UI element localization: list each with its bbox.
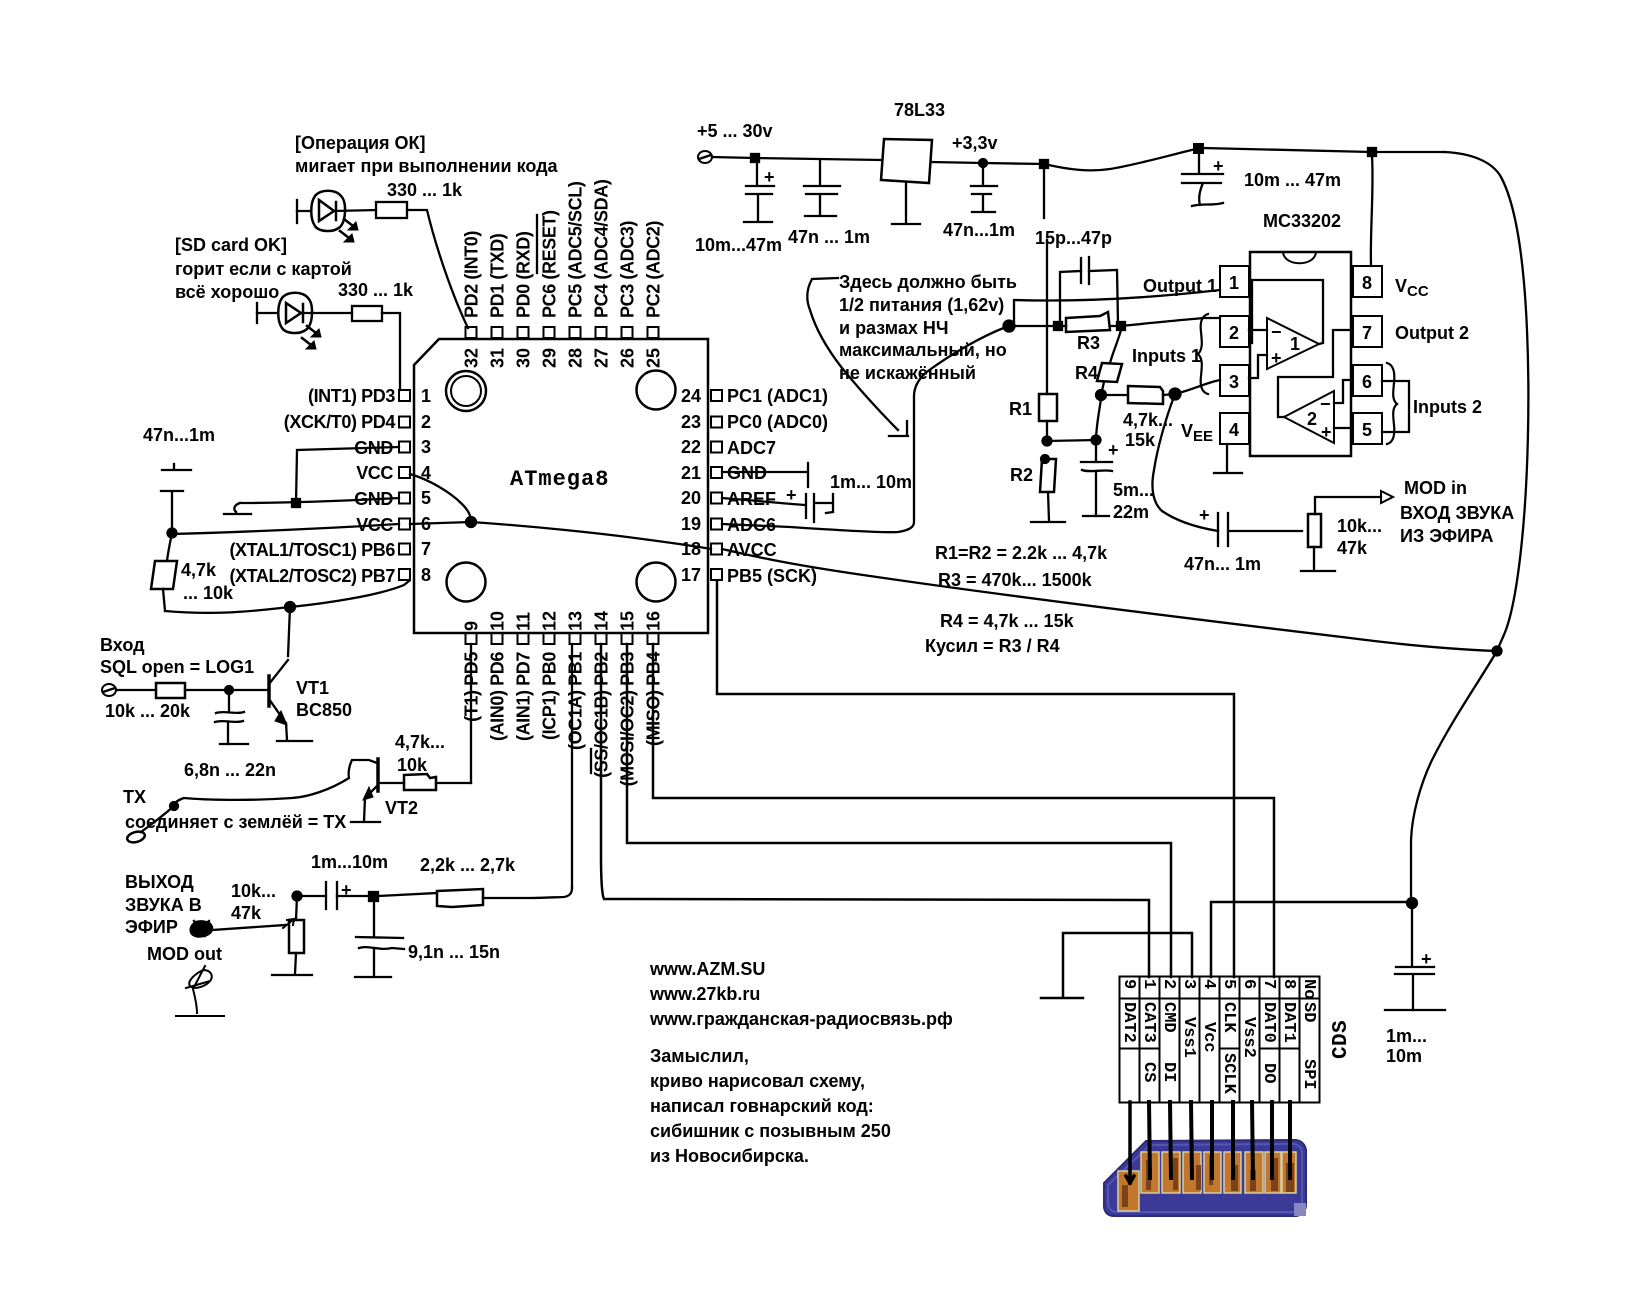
svg-text:15p...47p: 15p...47p	[1035, 228, 1112, 248]
wire Output1 feedback	[1009, 290, 1220, 326]
node base junction	[225, 686, 233, 694]
label [Операция ОК]	[295, 133, 559, 200]
svg-text:+: +	[1108, 440, 1119, 460]
SD card pad DAT2	[1118, 1171, 1139, 1211]
svg-text:19: 19	[681, 514, 701, 534]
wire 15p cap left leg	[1060, 271, 1081, 325]
ground SD Vss1	[1041, 997, 1083, 1000]
resistor 4,7k...15k (to pin3)	[1128, 386, 1163, 404]
U2 pin6 box	[1353, 365, 1382, 396]
svg-text:9: 9	[462, 621, 482, 631]
VT2 emitter	[368, 785, 378, 795]
wire to pin32	[407, 210, 468, 328]
ATmega8 left pin numbers	[421, 386, 431, 585]
U2 pin6 internal wire	[1334, 380, 1351, 403]
svg-text:8: 8	[421, 565, 431, 585]
wire +3.3v down to R1 (upper part)	[1043, 164, 1045, 218]
node R3 left junction	[1054, 322, 1062, 330]
labels MOD in	[1337, 478, 1514, 558]
op-amp 1 triangle	[1267, 318, 1319, 369]
wire resistor to pin13	[483, 888, 572, 898]
svg-text:2: 2	[421, 412, 431, 432]
svg-text:+: +	[1199, 505, 1210, 525]
svg-text:1m...: 1m...	[1386, 1026, 1427, 1046]
svg-text:7: 7	[1259, 979, 1278, 989]
VT2 collector wire to TX	[174, 760, 377, 806]
wire	[185, 689, 269, 691]
svg-text:8: 8	[1279, 979, 1298, 989]
op IC U1 ATmega8 body	[414, 339, 708, 633]
node VCC internal junction	[466, 517, 476, 527]
SD card pad Vcc	[1204, 1152, 1221, 1193]
wire SS pin14 to SD CS	[601, 644, 1149, 977]
svg-text:SCLK: SCLK	[1219, 1053, 1238, 1095]
SD card pad CMD	[1162, 1152, 1180, 1193]
node R1-R2 mid	[1043, 437, 1052, 446]
U2 pin1 box	[1220, 266, 1249, 297]
resistor 330...1k (R-LED2)	[352, 306, 382, 321]
svg-text:[Операция ОК]: [Операция ОК]	[295, 133, 426, 153]
svg-text:MC33202: MC33202	[1263, 211, 1341, 231]
LED VD2 light arrows	[307, 326, 316, 333]
U2 pin2 internal wire	[1249, 329, 1267, 331]
svg-text:47k: 47k	[1337, 538, 1368, 558]
wire mid vertical through cap	[1096, 399, 1101, 462]
wire CLK to pad	[1231, 1102, 1235, 1178]
svg-text:PC2 (ADC2): PC2 (ADC2)	[644, 221, 664, 318]
node +3.3v junction	[979, 159, 987, 167]
ATmega8 right pin squares 24-17	[711, 390, 722, 580]
note text	[650, 1046, 891, 1166]
svg-text:Vcc: Vcc	[1199, 1022, 1218, 1053]
wire	[334, 210, 376, 211]
svg-text:7: 7	[1362, 323, 1372, 343]
capacitor 1m...10m coupling	[326, 882, 337, 909]
svg-text:+: +	[764, 167, 775, 187]
svg-text:6: 6	[1362, 372, 1372, 392]
U2 internal feedback rect opamp1	[1252, 280, 1323, 344]
svg-text:17: 17	[681, 565, 701, 585]
svg-text:www.AZM.SU: www.AZM.SU	[649, 959, 765, 979]
svg-text:8: 8	[1362, 273, 1372, 293]
SD card pad DAT1	[1282, 1152, 1296, 1193]
svg-text:10m...47m: 10m...47m	[695, 235, 782, 255]
resistor R3	[1066, 312, 1110, 332]
node pot top junction	[293, 892, 302, 901]
svg-text:18: 18	[681, 539, 701, 559]
svg-text:Inputs 2: Inputs 2	[1413, 397, 1482, 417]
capacitor 10m...47m input	[746, 158, 774, 221]
LED VD2 diode	[286, 303, 301, 323]
node R3 right junction	[1117, 322, 1125, 330]
svg-text:7: 7	[421, 539, 431, 559]
potentiometer 10k...47k	[289, 920, 304, 953]
svg-text:PC3 (ADC3): PC3 (ADC3)	[618, 221, 638, 318]
svg-text:2: 2	[1159, 979, 1178, 989]
ATmega8 corner circle pin1 (double)	[446, 371, 486, 411]
capacitor 47n...1m after input	[804, 160, 840, 215]
svg-text:47n...1m: 47n...1m	[943, 220, 1015, 240]
svg-text:R1=R2 = 2.2k ... 4,7k: R1=R2 = 2.2k ... 4,7k	[935, 543, 1108, 563]
svg-text:CS: CS	[1139, 1062, 1158, 1082]
op-amp U2 MC33202 body	[1250, 252, 1351, 456]
resistor 4,7k...10k left	[151, 561, 177, 589]
wire MISO pin16 to SD DO	[653, 644, 1274, 977]
svg-text:SPI: SPI	[1299, 1059, 1318, 1090]
node SD Vcc junction	[1407, 898, 1417, 908]
svg-text:−: −	[1320, 394, 1331, 414]
svg-text:Вход: Вход	[100, 635, 145, 655]
wire pin3 node down to 47n cap	[1152, 394, 1218, 531]
svg-text:10k...: 10k...	[231, 881, 276, 901]
svg-text:+5 ... 30v: +5 ... 30v	[697, 121, 773, 141]
svg-text:24: 24	[681, 386, 701, 406]
svg-text:27: 27	[592, 348, 612, 368]
svg-text:R1: R1	[1009, 399, 1032, 419]
svg-text:+: +	[1213, 156, 1224, 176]
wire CAT3 to pad	[1149, 1102, 1150, 1178]
svg-text:(AIN1) PD7: (AIN1) PD7	[514, 652, 534, 741]
ATmega8 top pin numbers (rotated)	[462, 348, 664, 368]
wire GND pin3	[296, 447, 399, 503]
svg-text:C: C	[1330, 1046, 1353, 1059]
svg-text:... 10k: ... 10k	[183, 583, 234, 603]
brace Inputs 1	[1198, 314, 1208, 394]
ATmega8 corner circle bottom-right	[637, 563, 676, 602]
capacitor 1m...10m at SD	[1395, 903, 1434, 1010]
svg-text:Inputs 1: Inputs 1	[1132, 346, 1201, 366]
svg-text:330 ... 1k: 330 ... 1k	[387, 180, 463, 200]
svg-text:PC0 (ADC0): PC0 (ADC0)	[727, 412, 828, 432]
svg-text:1: 1	[1290, 334, 1300, 354]
terminal TX	[126, 830, 146, 844]
svg-text:Output 2: Output 2	[1395, 323, 1469, 343]
svg-text:2: 2	[1307, 409, 1317, 429]
svg-text:R4 = 4,7k ... 15k: R4 = 4,7k ... 15k	[940, 611, 1075, 631]
svg-text:SD: SD	[1299, 1002, 1318, 1022]
wire SD Vss1 to ground	[1063, 933, 1192, 997]
wire DAT0 to pad	[1270, 1102, 1274, 1178]
svg-text:23: 23	[681, 412, 701, 432]
node half supply junction	[1004, 321, 1015, 332]
SDC table pin numbers (rotated mono)	[1119, 979, 1318, 999]
svg-text:CAT3: CAT3	[1139, 1002, 1158, 1043]
ATmega8 left pin labels	[229, 386, 395, 586]
callout text half supply	[839, 272, 1017, 383]
svg-text:5m...: 5m...	[1113, 480, 1154, 500]
wire R3 right to R4	[1110, 330, 1121, 363]
brace Inputs 2	[1387, 363, 1397, 444]
svg-text:+3,3v: +3,3v	[952, 133, 998, 153]
ground 78L33	[892, 183, 920, 224]
svg-text:(XTAL2/TOSC2) PB7: (XTAL2/TOSC2) PB7	[229, 566, 395, 586]
svg-text:10k: 10k	[397, 755, 428, 775]
SDC table grid	[1120, 977, 1320, 1103]
wire half supply to R3	[1009, 325, 1058, 327]
U2 pin4 box	[1220, 413, 1249, 444]
U2 notch	[1283, 252, 1316, 263]
SD card pad shading	[1122, 1155, 1294, 1207]
svg-text:Vss1: Vss1	[1179, 1017, 1198, 1058]
svg-text:3: 3	[421, 437, 431, 457]
wire pin9 PD5 down	[470, 644, 472, 783]
ATmega8 right pin labels	[727, 386, 828, 586]
node power input junction	[751, 154, 759, 162]
svg-text:25: 25	[644, 348, 664, 368]
svg-text:Здесь должно быть: Здесь должно быть	[839, 272, 1017, 292]
svg-text:ЭФИР: ЭФИР	[125, 917, 178, 937]
svg-text:S: S	[1330, 1020, 1353, 1033]
wire GND pin5	[240, 498, 399, 503]
wire mid node to cap	[1047, 440, 1096, 441]
svg-text:ВХОД ЗВУКА: ВХОД ЗВУКА	[1400, 503, 1514, 523]
resistor 330...1k (R-LED1)	[376, 202, 407, 218]
svg-text:26: 26	[618, 348, 638, 368]
svg-text:ATmega8: ATmega8	[510, 467, 609, 492]
resistor 4,7k...10k VT2	[404, 774, 436, 790]
svg-text:47n...1m: 47n...1m	[143, 425, 215, 445]
SD card pad CLK	[1224, 1152, 1241, 1193]
svg-text:10k...: 10k...	[1337, 516, 1382, 536]
ATmega8 left pin squares 1-8	[399, 390, 410, 580]
capacitor 47n...1m left	[161, 464, 191, 530]
svg-text:4: 4	[1199, 979, 1218, 989]
wire	[301, 312, 352, 314]
node TX wire dot	[170, 802, 178, 810]
node coupling junction	[369, 892, 378, 901]
resistor 10k...47k MOD in	[1308, 514, 1321, 547]
svg-text:(XTAL1/TOSC1) PB6: (XTAL1/TOSC1) PB6	[229, 540, 395, 560]
svg-text:SQL open = LOG1: SQL open = LOG1	[100, 657, 254, 677]
wire AREF pin20	[722, 498, 805, 505]
svg-text:из Новосибирска.: из Новосибирска.	[650, 1146, 809, 1166]
svg-text:PC1 (ADC1): PC1 (ADC1)	[727, 386, 828, 406]
svg-text:2,2k ... 2,7k: 2,2k ... 2,7k	[420, 855, 516, 875]
LED VD1 circle	[311, 191, 345, 231]
svg-text:PC5 (ADC5/SCL): PC5 (ADC5/SCL)	[566, 181, 586, 318]
svg-text:PC4 (ADC4/SDA): PC4 (ADC4/SDA)	[592, 179, 612, 318]
wire	[116, 689, 156, 691]
wire VCC left to pin6	[172, 524, 399, 534]
svg-text:R3 = 470k... 1500k: R3 = 470k... 1500k	[938, 570, 1093, 590]
wire loop down to SD Vcc	[1411, 651, 1497, 902]
svg-text:сибишник с позывным 250: сибишник с позывным 250	[650, 1121, 891, 1141]
wire 78L33 output	[931, 162, 1044, 164]
urls text	[649, 959, 953, 1029]
svg-text:3: 3	[1229, 372, 1239, 392]
svg-text:(XCK/T0) PD4: (XCK/T0) PD4	[284, 412, 396, 432]
svg-text:DAT0: DAT0	[1259, 1002, 1278, 1043]
wire resistor to PD5	[436, 782, 471, 784]
svg-text:11: 11	[514, 612, 534, 631]
node VCC left junction	[168, 529, 177, 538]
ATmega8 right pin numbers	[681, 386, 701, 585]
capacitor 47n...1m at +3.3v	[971, 163, 997, 211]
node divider mid / R4 bottom	[1096, 390, 1106, 400]
wire big loop right side	[1444, 152, 1528, 651]
svg-text:10m: 10m	[1386, 1046, 1422, 1066]
svg-text:DI: DI	[1159, 1062, 1178, 1082]
node at 5m cap	[1092, 436, 1101, 445]
svg-text:9: 9	[1119, 979, 1138, 989]
svg-text:горит если с картой: горит если с картой	[175, 259, 352, 279]
terminal MOD out scribble	[191, 921, 212, 936]
resistor R4	[1097, 363, 1122, 382]
wire VT2 base to resistor	[378, 782, 404, 784]
wire to pin1	[382, 313, 400, 390]
svg-text:VT2: VT2	[385, 798, 418, 818]
svg-text:10k ... 20k: 10k ... 20k	[105, 701, 191, 721]
SD card pad CAT3	[1141, 1152, 1159, 1193]
wire R3 leads	[1058, 325, 1121, 327]
wire AVCC to Vcc net diagonal	[722, 549, 1497, 651]
svg-text:+: +	[786, 485, 797, 505]
svg-text:4: 4	[1229, 420, 1239, 440]
wire MOD out to pot	[212, 925, 285, 930]
svg-text:TX: TX	[123, 787, 146, 807]
svg-text:(ICP1) PB0: (ICP1) PB0	[540, 652, 560, 740]
internal wire VCC pin4 to pin6 node	[410, 474, 471, 521]
wire to cap	[297, 895, 326, 897]
resistor R1	[1039, 394, 1057, 421]
svg-text:мигает при выполнении кода: мигает при выполнении кода	[295, 156, 559, 176]
resistor R2	[1040, 459, 1056, 492]
svg-text:22: 22	[681, 437, 701, 457]
svg-text:4,7k: 4,7k	[181, 560, 217, 580]
wire MOSI pin15 to SD DI	[627, 644, 1171, 977]
svg-text:AVCC: AVCC	[727, 540, 777, 560]
U2 pin7 internal wire to opamp2 output	[1278, 330, 1351, 417]
svg-text:(OC1A) PB1: (OC1A) PB1	[566, 652, 586, 750]
svg-text:(INT1) PD3: (INT1) PD3	[308, 386, 395, 406]
svg-text:6,8n ... 22n: 6,8n ... 22n	[184, 760, 276, 780]
ATmega8 top pin squares 32-25	[466, 327, 659, 338]
node right loop junction	[1493, 647, 1502, 656]
wire DAT2 to pad	[1126, 1102, 1134, 1183]
svg-text:14: 14	[592, 611, 612, 631]
svg-text:MOD out: MOD out	[147, 944, 222, 964]
LED VD1 (Operation OK) terminal	[296, 200, 298, 223]
U2 pin5 internal wire	[1334, 427, 1351, 429]
svg-text:ИЗ ЭФИРА: ИЗ ЭФИРА	[1400, 526, 1494, 546]
ATmega8 corner circle bottom-left	[447, 563, 486, 602]
terminal MOD in arrow	[1381, 491, 1393, 503]
svg-text:соединяет с землёй = TX: соединяет с землёй = TX	[125, 812, 346, 832]
svg-text:DO: DO	[1259, 1063, 1278, 1083]
wire 47n cap to 10k resistor	[1228, 530, 1302, 532]
svg-text:BC850: BC850	[296, 700, 352, 720]
wire Vss1 to pad	[1191, 1102, 1192, 1178]
svg-text:3: 3	[1179, 979, 1198, 989]
svg-text:5: 5	[1362, 420, 1372, 440]
svg-text:криво нарисовал схему,: криво нарисовал схему,	[650, 1071, 865, 1091]
svg-text:21: 21	[681, 463, 701, 483]
svg-text:20: 20	[681, 488, 701, 508]
wire +3.3v down to R1 (lower part)	[1046, 240, 1048, 394]
U2 labels	[1132, 276, 1482, 445]
ATmega8 bottom pin numbers (rotated)	[462, 611, 664, 631]
svg-text:Кусил = R3 / R4: Кусил = R3 / R4	[925, 636, 1060, 656]
regulator 78L33	[881, 139, 932, 183]
U2 pin numbers	[1229, 273, 1372, 440]
capacitor 6,8n...22n	[215, 690, 244, 744]
svg-text:ВЫХОД: ВЫХОД	[125, 872, 194, 892]
wire	[297, 210, 311, 212]
svg-text:30: 30	[514, 348, 534, 368]
wire SCK pin17 to SD CLK	[717, 581, 1234, 977]
SD card pad DAT0	[1265, 1152, 1281, 1193]
svg-text:29: 29	[540, 348, 560, 368]
svg-text:PD0 (RXD): PD0 (RXD)	[514, 231, 534, 318]
svg-text:www.гражданская-радиосвязь.рф: www.гражданская-радиосвязь.рф	[649, 1009, 953, 1029]
SDC table SD names (rotated mono)	[1119, 1002, 1318, 1058]
svg-text:47n... 1m: 47n... 1m	[1184, 554, 1261, 574]
LED VD2 (SD card OK) terminal	[256, 303, 258, 323]
RESET overline	[536, 215, 538, 273]
U2 pin2 box	[1220, 316, 1249, 347]
transistor VT2	[376, 759, 380, 791]
svg-text:VCC: VCC	[356, 463, 393, 483]
LED VD1 diode	[319, 200, 334, 221]
svg-text:написал говнарский код:: написал говнарский код:	[650, 1096, 874, 1116]
SS overline	[590, 749, 592, 773]
capacitor 10m...47m at Vcc	[1182, 153, 1223, 205]
svg-text:78L33: 78L33	[894, 100, 945, 120]
svg-text:22m: 22m	[1113, 502, 1149, 522]
svg-text:1: 1	[1229, 273, 1239, 293]
wire junction down to VT1 collector	[288, 607, 290, 656]
terminal input +5V	[698, 151, 712, 163]
labels resistor values	[925, 543, 1108, 656]
svg-text:1/2 питания (1,62v): 1/2 питания (1,62v)	[839, 295, 1004, 315]
ground left GND net	[224, 503, 251, 514]
svg-text:[SD card OK]: [SD card OK]	[175, 235, 287, 255]
svg-text:не искажённый: не искажённый	[839, 363, 976, 383]
wire GND pin21 to AREF cap	[722, 463, 808, 487]
svg-text:CLK: CLK	[1219, 1002, 1238, 1033]
svg-text:DAT1: DAT1	[1279, 1002, 1298, 1043]
svg-text:PB5 (SCK): PB5 (SCK)	[727, 566, 817, 586]
svg-text:10: 10	[488, 611, 508, 631]
svg-text:всё хорошо: всё хорошо	[175, 282, 279, 302]
wire	[257, 312, 278, 314]
resistor 2,2k...2,7k	[437, 889, 483, 907]
svg-text:12: 12	[540, 611, 560, 631]
wire resistor to pin3 node	[1163, 394, 1175, 395]
svg-text:No: No	[1299, 979, 1318, 999]
U2 pin3 box	[1220, 365, 1249, 396]
LED VD2 circle	[278, 293, 312, 333]
wire SD Vcc column up and right	[1211, 902, 1411, 977]
SD card pad Vss1	[1183, 1152, 1201, 1193]
label SDC (rotated)	[1330, 1020, 1353, 1059]
svg-text:и размах НЧ: и размах НЧ	[839, 318, 949, 338]
capacitor 1m...10m AREF	[806, 494, 833, 522]
capacitor 9,1n...15n	[356, 937, 404, 977]
svg-text:+: +	[1271, 348, 1282, 368]
svg-text:PD2 (INT0): PD2 (INT0)	[462, 231, 482, 318]
callout arrow	[807, 278, 898, 430]
U2 pin5 box	[1353, 413, 1382, 444]
node Vcc top junction	[1194, 144, 1203, 153]
svg-text:ADC7: ADC7	[727, 438, 776, 458]
svg-text:47n ... 1m: 47n ... 1m	[788, 227, 870, 247]
svg-text:MOD in: MOD in	[1404, 478, 1467, 498]
wire pot top	[296, 896, 297, 920]
wire +3.3v to Vcc node	[1044, 149, 1196, 170]
svg-text:R3: R3	[1077, 333, 1100, 353]
label [SD card OK]	[175, 235, 414, 302]
